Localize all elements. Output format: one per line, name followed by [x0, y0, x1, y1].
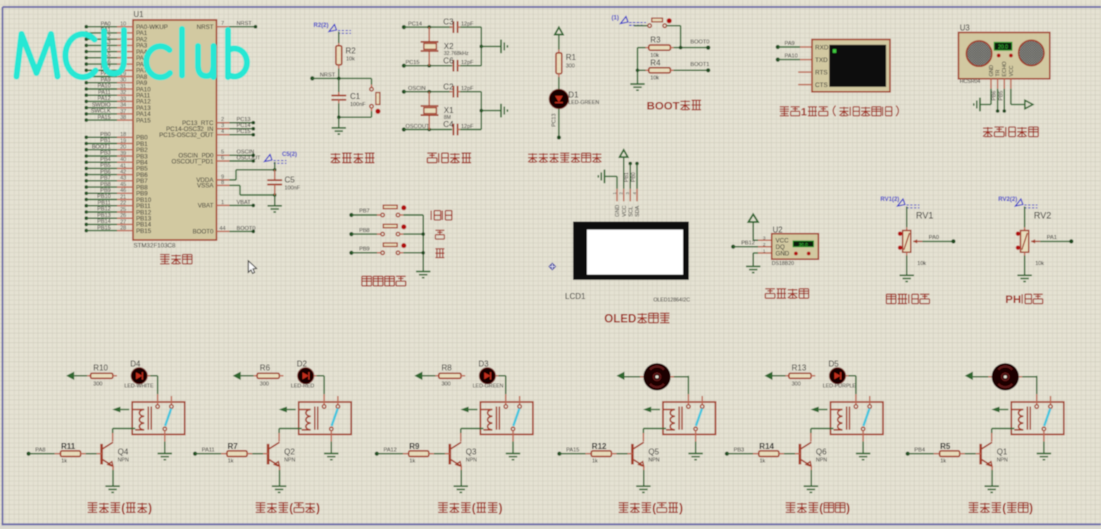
pin PC14-OSC32_IN (3)	[217, 128, 230, 130]
junction	[427, 90, 431, 94]
transistor Q3 NPN	[448, 444, 451, 465]
wire to ground	[481, 110, 501, 112]
label 继电器(水泵)	[969, 502, 979, 504]
relay blade	[513, 409, 519, 427]
svg-text:R12: R12	[592, 442, 607, 451]
svg-text:X1: X1	[444, 106, 454, 115]
svg-text:1k: 1k	[760, 458, 766, 464]
svg-text:PB12: PB12	[741, 241, 755, 247]
svg-text:PB14: PB14	[97, 219, 111, 225]
wire pot to ground	[906, 252, 908, 255]
svg-text:27: 27	[120, 219, 126, 225]
cursor	[248, 261, 256, 274]
push button PLUS	[381, 232, 385, 236]
svg-text:(: (	[289, 502, 293, 515]
svg-text:C5(2): C5(2)	[282, 152, 297, 158]
svg-text:300: 300	[792, 382, 801, 388]
wire power to R8	[422, 375, 435, 377]
transistor Q5 NPN	[631, 444, 634, 465]
pin VDDA (9)	[217, 179, 230, 181]
svg-text:Q5: Q5	[648, 448, 659, 457]
ground	[506, 453, 520, 455]
svg-text:PA15: PA15	[566, 448, 579, 454]
svg-text:PB4: PB4	[914, 448, 925, 454]
LED D1	[549, 89, 568, 108]
svg-text:32: 32	[120, 90, 126, 96]
svg-text:R3: R3	[650, 35, 661, 44]
svg-text:33: 33	[120, 96, 126, 102]
svg-text:NPN: NPN	[118, 458, 129, 464]
svg-text:LCD1: LCD1	[565, 292, 586, 301]
svg-text:GND: GND	[989, 65, 995, 77]
label 继电器(照明)	[88, 502, 98, 504]
label 独立按键	[362, 275, 372, 277]
wire coil to transistor	[811, 428, 834, 430]
relay bottom contact	[330, 427, 334, 431]
svg-text:1k: 1k	[940, 458, 946, 464]
svg-text:BOOT0: BOOT0	[193, 229, 215, 236]
ground	[636, 485, 650, 487]
wire power to VCC	[752, 222, 754, 240]
ground	[900, 274, 914, 276]
svg-text:39: 39	[120, 151, 126, 157]
pin PB1 (19)	[85, 142, 89, 146]
terminal PA8	[27, 452, 31, 456]
svg-text:10: 10	[120, 22, 126, 28]
label 设置	[430, 211, 432, 220]
relay bottom contact	[861, 427, 865, 431]
wire coil to transistor	[643, 428, 666, 430]
wire VCC pin	[623, 157, 625, 189]
ground	[1037, 453, 1051, 455]
node C5 top	[273, 168, 277, 172]
crystal X2	[428, 27, 430, 41]
svg-text:): )	[846, 502, 850, 515]
svg-text:19: 19	[120, 138, 126, 144]
svg-text:PA12: PA12	[98, 96, 111, 102]
svg-text:PA15: PA15	[136, 117, 151, 124]
LED D3	[461, 375, 465, 377]
svg-text:OSCOUT_PD1: OSCOUT_PD1	[172, 158, 215, 165]
label 继电器(加热)	[256, 502, 266, 504]
terminal PA12	[375, 452, 379, 456]
resistor R9	[403, 453, 409, 455]
svg-text:PB4: PB4	[100, 157, 111, 163]
svg-text:R7: R7	[228, 442, 239, 451]
wire emitter to ground	[279, 466, 281, 470]
junction	[421, 232, 425, 236]
svg-text:300: 300	[442, 382, 451, 388]
svg-text:LED-WHITE: LED-WHITE	[124, 384, 154, 390]
pin PA2 (12)	[85, 37, 89, 41]
wire TR	[997, 89, 999, 111]
ground	[105, 485, 119, 487]
svg-text:NRST: NRST	[320, 73, 336, 79]
svg-text:PA0: PA0	[101, 21, 111, 27]
svg-text:PB13: PB13	[97, 213, 111, 219]
svg-text:PA0: PA0	[929, 235, 939, 241]
svg-text:RV2(2): RV2(2)	[998, 197, 1017, 203]
capacitor C5	[274, 170, 276, 180]
power symbol	[620, 150, 628, 157]
pin PA10 (31)	[85, 87, 89, 91]
svg-text:1: 1	[221, 200, 224, 206]
push button SET	[381, 213, 385, 217]
button dots	[794, 252, 798, 256]
svg-text:PA11: PA11	[98, 90, 111, 96]
svg-text:Q2: Q2	[284, 448, 295, 457]
svg-text:R2(2): R2(2)	[314, 23, 329, 29]
svg-text:30.0: 30.0	[799, 242, 809, 248]
svg-text:TR: TR	[996, 69, 1002, 76]
svg-text:10k: 10k	[346, 57, 355, 63]
wire C5 to ground	[274, 195, 276, 205]
svg-text:40: 40	[120, 157, 126, 163]
ground	[856, 453, 870, 455]
svg-text:PA9: PA9	[785, 41, 795, 47]
ground	[630, 83, 644, 85]
svg-text:): )	[316, 502, 320, 515]
svg-text:D5: D5	[829, 359, 840, 368]
pin PB3 (39)	[85, 154, 89, 158]
IC U1 body	[133, 20, 217, 240]
potentiometer RV1	[903, 231, 911, 253]
wire motor to relay contact	[1019, 376, 1022, 378]
relay blade	[863, 409, 869, 427]
label 加	[435, 229, 444, 231]
pin PC13_RTC (2)	[217, 122, 230, 124]
pin PA0-WKUP (10)	[85, 25, 89, 29]
svg-text:RV2: RV2	[1034, 210, 1051, 220]
resistor R4	[638, 69, 646, 71]
left rail	[637, 48, 639, 84]
wire GND to ground	[990, 89, 992, 105]
svg-text:C4: C4	[443, 120, 454, 129]
transducer left	[966, 41, 991, 66]
svg-text:R9: R9	[409, 442, 420, 451]
svg-text:PB10: PB10	[97, 194, 111, 200]
svg-text:LED-GREEN: LED-GREEN	[568, 100, 599, 106]
svg-text:Q1: Q1	[997, 448, 1008, 457]
pin PA11 (32)	[85, 93, 89, 97]
svg-text:VCC: VCC	[622, 205, 628, 216]
svg-text:): )	[148, 502, 152, 515]
terminal PB7	[349, 213, 353, 217]
svg-text:PB12: PB12	[97, 207, 111, 213]
capacitor C2	[450, 91, 453, 93]
relay contacts	[687, 394, 689, 405]
svg-text:PB0: PB0	[631, 172, 637, 182]
pin PA9 (30)	[85, 81, 89, 85]
relay 继电器(消毒) coil and switch	[831, 402, 884, 434]
pin NRST (7)	[217, 26, 230, 28]
svg-text:PB8: PB8	[359, 228, 370, 234]
terminal screen	[829, 45, 886, 87]
power symbol	[1025, 100, 1033, 108]
junction	[427, 128, 431, 132]
label 光照调节	[886, 293, 896, 295]
wire coil to transistor	[461, 428, 484, 430]
pin PB11 (22)	[85, 204, 89, 208]
svg-text:PA11: PA11	[202, 448, 215, 454]
pin PA3 (13)	[85, 44, 89, 48]
svg-text:41: 41	[120, 163, 126, 169]
resistor R8	[439, 373, 461, 378]
svg-text:2: 2	[763, 242, 766, 248]
junction	[337, 77, 341, 81]
svg-text:VBAT: VBAT	[237, 200, 252, 206]
svg-text:LED-GREEN: LED-GREEN	[473, 384, 504, 390]
relay contacts	[323, 394, 325, 405]
svg-text:VCC: VCC	[1009, 65, 1015, 76]
ground	[416, 271, 430, 273]
digital display 20.0	[994, 42, 1012, 50]
watermark MCUclub	[17, 29, 247, 77]
wire pot to ground	[1024, 252, 1026, 255]
net PC15	[402, 64, 406, 68]
svg-text:38: 38	[120, 115, 126, 121]
capacitor C3	[450, 26, 453, 28]
wire ECHO	[1003, 89, 1005, 111]
ground	[454, 485, 468, 487]
label 程序运行指示灯	[528, 153, 537, 155]
pin OSCOUT_PD1 (6)	[217, 160, 230, 162]
relay bottom contact	[511, 427, 515, 431]
relay contacts	[855, 394, 857, 405]
svg-text:42: 42	[120, 170, 126, 176]
wire coil to transistor	[113, 428, 136, 430]
svg-text:NRST: NRST	[237, 21, 253, 27]
pin PB12 (25)	[85, 210, 89, 214]
svg-text:PA12: PA12	[384, 448, 397, 454]
svg-text:GND: GND	[776, 251, 790, 258]
svg-text:PA1: PA1	[1047, 235, 1057, 241]
transistor Q2 NPN	[267, 444, 270, 465]
svg-text:SDA: SDA	[635, 205, 641, 216]
power symbol	[748, 214, 758, 222]
button dots	[997, 54, 1001, 58]
svg-text:D1: D1	[568, 91, 579, 100]
resistor R10	[91, 373, 113, 378]
svg-text:OSCOUT: OSCOUT	[237, 155, 262, 161]
svg-text:RV1: RV1	[916, 210, 933, 220]
push button (BOOT)	[634, 25, 648, 27]
junction	[679, 46, 683, 50]
ground	[1017, 274, 1031, 276]
svg-text:10k: 10k	[650, 76, 659, 82]
svg-text:100nF: 100nF	[285, 186, 301, 192]
junction	[421, 251, 425, 255]
rail wire	[422, 215, 424, 271]
motor	[992, 363, 1019, 390]
power symbol	[965, 372, 973, 380]
label 超声波模块	[983, 127, 993, 129]
svg-text:PB5: PB5	[998, 91, 1004, 101]
net OSCIN	[402, 90, 406, 94]
resistor R3	[638, 47, 646, 49]
svg-text:X2: X2	[444, 42, 454, 51]
wire down to contact	[855, 376, 857, 394]
relay 继电器(水泵) coil and switch	[1011, 402, 1064, 434]
svg-text:46: 46	[120, 188, 126, 194]
svg-text:NPN: NPN	[648, 458, 659, 464]
wire LED to relay contact	[147, 375, 150, 377]
svg-text:PB1: PB1	[624, 172, 630, 182]
svg-text:NRST: NRST	[197, 24, 214, 31]
svg-text:3: 3	[763, 235, 766, 241]
label 复位电路	[331, 153, 341, 155]
svg-text:20.0: 20.0	[998, 44, 1008, 50]
svg-text:PB9: PB9	[359, 247, 370, 253]
svg-text:1k: 1k	[409, 458, 415, 464]
svg-text:PB6: PB6	[992, 91, 998, 101]
svg-text:26: 26	[120, 213, 126, 219]
wire R1 to D1	[558, 74, 560, 77]
junction	[337, 115, 341, 119]
svg-text:7: 7	[221, 21, 224, 27]
pin PA6 (16)	[85, 62, 89, 66]
power symbol	[555, 27, 563, 34]
svg-text:PA9: PA9	[101, 77, 111, 83]
terminal PB4	[906, 452, 910, 456]
pin PB6 (42)	[85, 173, 89, 177]
pin PA13 (34)	[85, 106, 89, 110]
label 串口1窗口（模拟手机端）	[780, 106, 789, 108]
svg-text:C2: C2	[443, 82, 454, 91]
label 主芯片	[160, 254, 170, 256]
power symbol coil	[460, 407, 468, 413]
svg-text:PB15: PB15	[97, 225, 111, 231]
power symbol coil	[112, 407, 120, 413]
resistor R2	[336, 46, 342, 65]
wire right rail	[480, 27, 482, 66]
wire down to contact	[1036, 376, 1038, 394]
origin marker	[548, 263, 556, 271]
pin PC15-OSC32_OUT (4)	[217, 134, 230, 136]
relay bottom contact	[1042, 427, 1046, 431]
svg-text:PB3: PB3	[100, 151, 111, 157]
terminal PB3	[725, 452, 729, 456]
pin PB2 (20)	[85, 148, 89, 152]
pin PA5 (15)	[85, 56, 89, 60]
svg-text:PB3: PB3	[734, 448, 745, 454]
svg-text:R4: R4	[650, 58, 661, 67]
svg-text:U1: U1	[134, 10, 144, 19]
transducer right	[1019, 40, 1044, 65]
svg-text:R5: R5	[940, 442, 951, 451]
svg-text:VBAT: VBAT	[198, 203, 214, 210]
net NRST	[310, 76, 314, 80]
svg-text:C3: C3	[443, 18, 454, 27]
svg-text:TXD: TXD	[815, 57, 828, 64]
svg-text:12pF: 12pF	[461, 60, 474, 66]
svg-text:300: 300	[93, 382, 102, 388]
svg-text:PC15: PC15	[237, 129, 251, 135]
wire emitter to ground	[460, 466, 462, 470]
wire motor to relay contact	[671, 376, 674, 378]
wire VCC to power	[1010, 89, 1012, 105]
svg-text:PB8: PB8	[100, 182, 111, 188]
power symbol	[617, 372, 625, 380]
svg-text:12pF: 12pF	[461, 124, 474, 130]
svg-text:R10: R10	[93, 363, 108, 372]
svg-text:8: 8	[221, 180, 224, 186]
relay blade	[696, 409, 702, 427]
terminal PB12	[731, 245, 735, 249]
svg-text:R2: R2	[346, 47, 357, 56]
net BOOT0	[706, 46, 710, 50]
svg-text:PB7: PB7	[359, 209, 370, 215]
wire GND pin	[605, 175, 618, 177]
label 晶振电路	[427, 152, 437, 154]
pin VSSA (8)	[217, 184, 230, 186]
svg-text:37: 37	[120, 109, 126, 115]
net BOOT1	[706, 68, 710, 72]
svg-text:C5: C5	[285, 176, 296, 185]
svg-text:20: 20	[120, 145, 126, 151]
svg-text:C1: C1	[350, 92, 361, 101]
pin PB0 (18)	[85, 136, 89, 140]
wire emitter to ground	[643, 466, 645, 470]
capacitor C6	[452, 60, 454, 72]
ground	[604, 170, 606, 184]
wire power to R13	[773, 375, 786, 377]
svg-text:VSSA: VSSA	[197, 183, 214, 190]
svg-text:GND: GND	[615, 205, 621, 217]
wire emitter to ground	[991, 466, 993, 470]
wire right rail	[480, 92, 482, 130]
resistor R14	[753, 453, 759, 455]
ground	[332, 127, 346, 129]
ground	[500, 104, 502, 118]
relay contacts	[1036, 394, 1038, 405]
wire emitter to ground	[810, 466, 812, 470]
ground	[272, 485, 286, 487]
wire button to R3 node	[667, 25, 681, 27]
svg-text:12pF: 12pF	[461, 86, 474, 92]
svg-text:PB0: PB0	[100, 132, 111, 138]
svg-text:DS18B20: DS18B20	[772, 261, 794, 267]
svg-text:10k: 10k	[917, 261, 926, 267]
transistor Q4 NPN	[100, 444, 103, 465]
wire emitter to ground	[112, 466, 114, 470]
resistor R11	[55, 453, 61, 455]
svg-text:RXD: RXD	[815, 45, 829, 52]
relay contacts	[157, 394, 159, 405]
svg-text:21: 21	[120, 194, 126, 200]
svg-text:C6: C6	[443, 56, 454, 65]
svg-text:OSCOUT: OSCOUT	[406, 124, 431, 130]
relay bottom contact	[694, 427, 698, 431]
wire to ground	[481, 45, 501, 47]
relay blade	[332, 409, 338, 427]
ground	[746, 265, 760, 267]
pin PB9 (46)	[85, 192, 89, 196]
svg-text:): )	[499, 502, 503, 515]
wire LED to relay contact	[496, 375, 499, 377]
pin PA15 (38)	[85, 118, 89, 122]
LED D4	[113, 375, 117, 377]
relay bottom contact	[163, 427, 167, 431]
wire to rail	[400, 214, 404, 216]
svg-text:34: 34	[120, 103, 126, 109]
motor	[643, 363, 670, 390]
svg-text:1: 1	[763, 248, 766, 254]
wire to rail	[400, 233, 404, 235]
wire power to motor	[625, 376, 641, 378]
off-page reference C5(2)	[265, 155, 273, 162]
svg-text:31: 31	[120, 84, 126, 90]
